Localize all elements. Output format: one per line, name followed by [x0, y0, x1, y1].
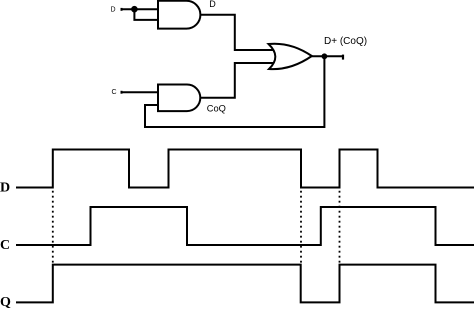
svg-text:D: D [0, 181, 10, 196]
svg-text:D+ (CoQ): D+ (CoQ) [324, 36, 367, 47]
svg-text:D: D [111, 6, 116, 13]
svg-text:Q: Q [0, 295, 11, 309]
svg-text:D: D [209, 0, 216, 9]
svg-text:C: C [112, 89, 117, 96]
svg-text:C: C [0, 238, 10, 253]
svg-text:CoQ: CoQ [207, 103, 226, 113]
